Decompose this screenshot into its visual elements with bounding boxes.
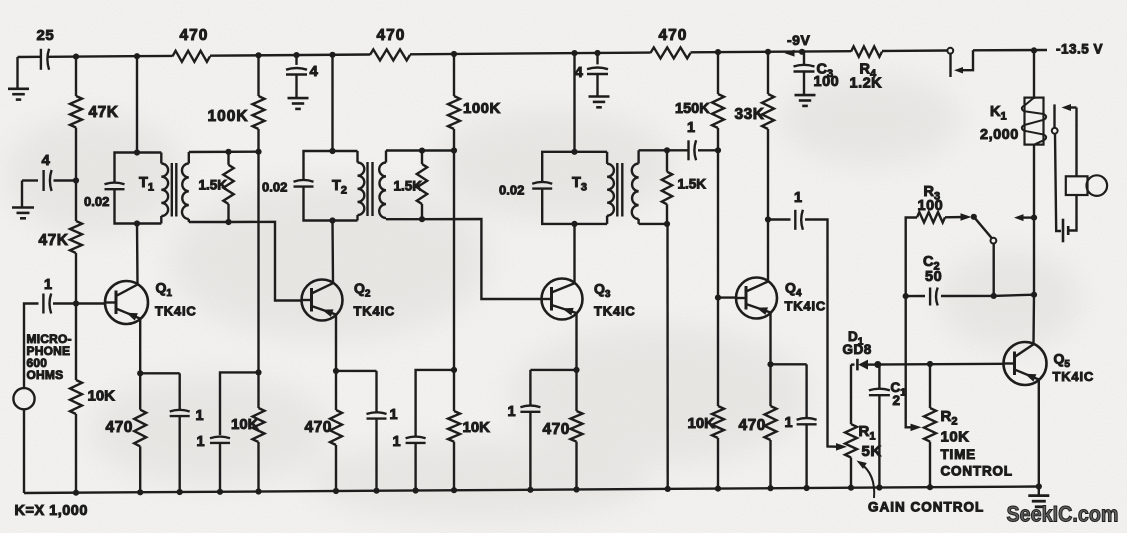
wire hook to earphone xyxy=(1075,108,1077,177)
wire Q3 emitter down xyxy=(575,314,577,370)
transformer T3 primary winding xyxy=(606,152,608,164)
wiper arrow R2 xyxy=(911,424,922,432)
wire Q2 emitter node to bypass cap xyxy=(336,370,377,372)
node T3 secondary bottom xyxy=(664,221,670,227)
svg-text:TK4IC: TK4IC xyxy=(594,304,636,319)
svg-text:TIME: TIME xyxy=(941,447,976,462)
resistor 470 (Q3 emitter) xyxy=(575,370,577,411)
wire T2 secondary bottom side xyxy=(386,218,423,220)
capacitor 0.02 (T3 tank) xyxy=(532,182,552,184)
node ground rail at Q1 470 xyxy=(137,489,143,495)
node bias filter s2 xyxy=(451,367,457,373)
wire rail to 100K xyxy=(257,55,259,96)
transformer T2 primary winding xyxy=(356,151,358,163)
switch contact (open circle) xyxy=(991,238,997,244)
svg-text:2: 2 xyxy=(893,393,901,408)
wire 33K to output node xyxy=(767,129,769,220)
wire T1 secondary top side xyxy=(189,150,259,153)
node C2 left xyxy=(903,293,909,299)
wire T3 bottom to Q3 collector xyxy=(573,224,575,283)
earphone symbol xyxy=(1066,176,1088,195)
wire T2 secondary top side xyxy=(386,149,454,151)
capacitor 1 (mic coupling) xyxy=(42,294,44,314)
wire 470 to ground rail xyxy=(139,446,141,492)
svg-text:1.5K: 1.5K xyxy=(199,178,228,193)
node ground rail at Q4 470 xyxy=(767,485,773,491)
wire cap to Q1 base xyxy=(53,302,106,304)
transformer T1 primary winding xyxy=(160,153,162,164)
transformer T2 primary loop xyxy=(304,151,358,180)
capacitor C3 100 xyxy=(803,52,805,65)
resistor 470 (Q4 emitter) xyxy=(769,364,771,406)
svg-text:10K: 10K xyxy=(688,415,716,432)
ground (bias bypass cap) xyxy=(21,181,23,208)
transistor Q4 xyxy=(736,278,777,319)
resistor 47K (lower) xyxy=(70,221,82,253)
wire gain cap to R1 wiper xyxy=(805,220,840,447)
ground (rail bypass 3) xyxy=(589,95,610,98)
wire C2 node up to R3 xyxy=(906,218,917,297)
transformer T1 core xyxy=(171,163,173,217)
svg-text:0.02: 0.02 xyxy=(499,183,524,198)
wire rail to T3 top xyxy=(573,53,575,152)
resistor R2 10K (time pot) xyxy=(929,364,931,408)
wire Q2 emitter down xyxy=(335,315,337,371)
wire top supply rail xyxy=(18,56,41,59)
node Q4 base xyxy=(715,295,721,301)
wire Q4 emitter node to bypass cap xyxy=(771,363,807,365)
wire R1 to ground rail xyxy=(850,458,852,488)
resistor 10K (Q2 bias lower) xyxy=(257,372,259,408)
wire rail to 100K (2) xyxy=(453,54,455,96)
wire Q1 emitter down xyxy=(139,319,141,373)
svg-text:1: 1 xyxy=(794,190,803,206)
node base bias Q1 xyxy=(73,300,79,306)
resistor 33K (Q4 collector load) xyxy=(762,94,774,129)
resistor 470 (rail decoupling 1) xyxy=(173,51,211,62)
capacitor 4 (rail bypass 2) xyxy=(295,55,297,65)
resistor 150K (Q4 bias) xyxy=(712,94,724,128)
wire Q1 emitter node to 470 xyxy=(139,373,141,409)
relay coil K1 xyxy=(1025,98,1044,145)
svg-text:GD8: GD8 xyxy=(843,342,872,357)
svg-text:150K: 150K xyxy=(675,101,710,117)
capacitor 1 (output coupling) xyxy=(794,210,796,230)
wire T3 secondary bottom side xyxy=(639,223,668,225)
node T2 bottom xyxy=(329,217,335,223)
node T1 secondary / bias line xyxy=(255,149,261,155)
svg-text:10K: 10K xyxy=(88,388,116,405)
resistor 10K (Q4 bias lower) xyxy=(717,298,719,406)
svg-text:4: 4 xyxy=(310,63,319,80)
wire K1 to junction xyxy=(1033,145,1035,218)
svg-text:1.5K: 1.5K xyxy=(678,177,707,192)
svg-text:100: 100 xyxy=(814,74,840,90)
svg-text:TK4IC: TK4IC xyxy=(1053,369,1095,384)
resistor R4 1.2K xyxy=(851,46,882,56)
contact wire (relay output) xyxy=(1053,104,1055,128)
svg-text:470: 470 xyxy=(659,27,688,44)
resistor 47K (upper) xyxy=(70,96,82,128)
contact circle (relay output) xyxy=(1052,128,1058,134)
node ground rail at Q1 bypass xyxy=(177,489,183,495)
resistor 470 (rail decoupling 2) xyxy=(370,49,410,60)
capacitor 1 (Q1 emitter bypass) xyxy=(178,373,180,410)
capacitor 1 (bias filter s2) xyxy=(406,437,426,439)
capacitor 4 (rail bypass 3) xyxy=(596,53,598,64)
resistor 1.5K (T3 damping) xyxy=(666,150,668,171)
capacitor 1 (Q4 emitter bypass) xyxy=(805,364,807,418)
svg-text:25: 25 xyxy=(37,27,55,44)
svg-text:1: 1 xyxy=(390,407,399,423)
svg-text:100: 100 xyxy=(918,198,944,214)
resistor R3 100 xyxy=(917,212,945,222)
svg-text:4: 4 xyxy=(575,64,584,81)
wire C2 to collector bus xyxy=(994,295,1034,296)
node T2 top xyxy=(329,148,335,154)
wire rail to 150K xyxy=(717,52,719,94)
node rail to T2 primary xyxy=(329,52,335,58)
node T1 top xyxy=(134,149,140,155)
svg-text:470: 470 xyxy=(305,419,332,436)
capacitor 1 (Q4 coupling) xyxy=(687,140,689,160)
capacitor 4 (bias bypass) xyxy=(22,179,38,181)
node Q4 emitter junction xyxy=(767,361,773,367)
wire T1 secondary to Q2 base xyxy=(229,222,302,301)
transformer T2 core xyxy=(366,162,368,216)
wire rail to T1 top xyxy=(136,56,138,152)
svg-text:50: 50 xyxy=(925,269,942,285)
node rail at bypass 3 xyxy=(594,50,600,56)
transformer T2 secondary winding xyxy=(385,151,387,163)
switch contact on rail (open circle) xyxy=(947,48,953,54)
wire T2 bottom to Q2 collector xyxy=(331,221,334,283)
svg-text:47K: 47K xyxy=(39,232,69,249)
wire C2 node to R2 wiper xyxy=(906,296,914,427)
node ground rail at bias column xyxy=(73,490,79,496)
wire Q3 emitter node to bypass cap xyxy=(530,369,576,371)
node T3 top xyxy=(571,149,577,155)
node rail / 100K xyxy=(255,52,261,58)
svg-text:4: 4 xyxy=(42,152,51,169)
wire bias line down s1 xyxy=(257,152,259,373)
wire bus to Q5 collector xyxy=(1032,295,1035,344)
arrow to contact xyxy=(1067,106,1077,108)
svg-text:10K: 10K xyxy=(463,419,491,436)
transistor Q5 xyxy=(1004,342,1047,385)
svg-text:-9V: -9V xyxy=(787,32,810,48)
wire output node to gain cap xyxy=(768,218,791,220)
wire base node to 10K xyxy=(75,304,77,381)
capacitor 0.02 (T2 tank) xyxy=(294,180,314,182)
wire Q5 emitter to ground rail xyxy=(1038,380,1040,487)
svg-text:TK4IC: TK4IC xyxy=(785,299,827,314)
node rail to T1 primary xyxy=(134,53,140,59)
node ground rail at Q2 bias 10K xyxy=(255,488,261,494)
capacitor 1 (bias filter s1) xyxy=(210,437,230,439)
node switch pivot xyxy=(971,214,977,220)
node ground rail at Q5 emitter xyxy=(1036,483,1042,489)
svg-text:1: 1 xyxy=(687,120,696,136)
node T3 secondary top / 1.5K xyxy=(664,147,670,153)
svg-text:100K: 100K xyxy=(208,108,249,125)
diode D1 GD8 xyxy=(851,363,855,365)
wire contact down to C2 xyxy=(993,244,995,296)
wire bias filter link s2 xyxy=(416,370,454,436)
svg-text:10K: 10K xyxy=(941,429,970,446)
transformer T3 core xyxy=(616,163,618,217)
svg-text:0.02: 0.02 xyxy=(84,194,109,209)
switch arm to contact xyxy=(974,217,992,238)
node ground rail at Q4 bias 10K xyxy=(715,486,721,492)
svg-text:TK4IC: TK4IC xyxy=(354,304,396,319)
supply arrow (-9V) xyxy=(785,50,795,57)
wire D1 node to Q5 base xyxy=(878,363,1004,366)
arrow fixed contact xyxy=(954,67,963,74)
ground (rail bypass 2) xyxy=(288,97,309,100)
wire bus to C2 line xyxy=(1033,218,1035,295)
node rail / 150K xyxy=(715,49,721,55)
wire 47K to base node xyxy=(75,253,77,304)
switch pivot arrow xyxy=(961,213,972,221)
node rail / 33K xyxy=(765,49,771,55)
microphone symbol xyxy=(13,388,34,409)
resistor 470 (rail decoupling 3) xyxy=(651,47,691,58)
wire fixed contact hook xyxy=(960,50,974,70)
resistor 1.5K (T1 damping) xyxy=(227,152,229,165)
wire Q4 base lead xyxy=(718,296,736,298)
node ground rail at C1 xyxy=(876,484,882,490)
wire 47K to divider node xyxy=(75,128,77,222)
resistor 470 (Q1 emitter) xyxy=(134,410,146,447)
capacitor C1 2 xyxy=(878,365,880,389)
resistor 470 (Q2 emitter) xyxy=(335,371,337,410)
node rail / 100K (2) xyxy=(451,51,457,57)
capacitor C2 50 xyxy=(906,295,925,298)
transformer T3 secondary winding xyxy=(637,150,639,163)
node top-rail / 47K divider xyxy=(73,54,79,60)
wire rail to 33K xyxy=(767,52,769,94)
wire 100K to T1 secondary xyxy=(257,129,259,152)
node rail to T3 primary xyxy=(571,50,577,56)
capacitor 0.02 (T1 tank) xyxy=(105,183,125,185)
node ground rail at Q2 470 xyxy=(333,488,339,494)
svg-text:GAIN CONTROL: GAIN CONTROL xyxy=(868,500,984,515)
wire output node to Q4 collector xyxy=(767,220,769,282)
svg-text:1.5K: 1.5K xyxy=(394,179,423,194)
resistor 1.5K (T2 damping) xyxy=(421,151,423,164)
svg-text:470: 470 xyxy=(543,421,570,438)
node rail at bypass 2 xyxy=(293,52,299,58)
svg-text:SeekIC.com: SeekIC.com xyxy=(1007,502,1119,527)
node ground rail at R2 xyxy=(927,484,933,490)
wire coupling cap to bias node xyxy=(698,149,718,151)
node Q3 emitter junction xyxy=(573,367,579,373)
resistor 100K (Q3 bias) xyxy=(448,96,460,129)
svg-text:470: 470 xyxy=(377,27,406,44)
battery cell (earphone bias) xyxy=(1062,219,1065,243)
ground (C3) xyxy=(795,94,816,97)
transistor Q2 xyxy=(302,280,343,321)
svg-text:K=X 1,000: K=X 1,000 xyxy=(15,503,88,519)
node T2 secondary / bias line xyxy=(451,147,457,153)
node R2 top xyxy=(927,361,933,367)
node T2 secondary top / 1.5K xyxy=(419,148,425,154)
wire bottom ground rail xyxy=(24,487,1039,494)
svg-text:1: 1 xyxy=(785,415,794,431)
transformer T1 primary loop xyxy=(115,153,162,183)
capacitor 1 (Q2 emitter bypass) xyxy=(375,371,377,412)
wire bias filter link s1 xyxy=(220,372,259,435)
node Q4 coupling / bias xyxy=(715,147,721,153)
wire mic to coupling cap xyxy=(24,304,39,389)
svg-text:1: 1 xyxy=(508,404,517,420)
node ground rail at s1 filter cap xyxy=(217,489,223,495)
node ground rail at Q3 bypass xyxy=(527,487,533,493)
wire T2 secondary to Q3 base xyxy=(423,219,542,299)
wiper arrow R1 xyxy=(836,443,847,451)
node bus output junction xyxy=(1031,215,1037,221)
svg-text:1: 1 xyxy=(197,434,206,450)
svg-text:10K: 10K xyxy=(231,416,259,433)
resistor 10K (Q3 bias lower) xyxy=(453,370,455,411)
svg-text:1: 1 xyxy=(196,408,205,424)
wire Q4 emitter down xyxy=(769,313,771,364)
node bus / C2 line / Q5 collector xyxy=(1031,292,1037,298)
node -13.5V bus xyxy=(1031,47,1037,53)
ground (main, at Q5 emitter) xyxy=(1038,487,1040,495)
node ground rail at Q2 bypass xyxy=(373,488,379,494)
wire mic to ground rail xyxy=(23,409,25,493)
wire bias line to Q4 base xyxy=(717,150,719,297)
svg-text:-13.5 V: -13.5 V xyxy=(1056,42,1103,57)
wire contact to plug xyxy=(1055,134,1061,231)
wire T1 bottom to Q1 collector xyxy=(136,224,139,285)
node divider / bypass cap 4 xyxy=(73,177,79,183)
wire bus rail to K1 xyxy=(1033,50,1035,99)
resistor R1 5K (gain pot) xyxy=(845,424,857,457)
wire 100K to T2 secondary xyxy=(453,129,455,151)
node T1 secondary bottom / 1.5K xyxy=(225,219,231,225)
resistor 100K (Q2 bias) xyxy=(253,96,265,129)
wire R3 to switch pivot xyxy=(945,216,965,219)
wire top-right rail segment xyxy=(973,49,1047,52)
node T3 bottom xyxy=(571,221,577,227)
wire earphone to cell xyxy=(1068,195,1076,231)
wire T1 secondary bottom side xyxy=(189,221,229,223)
node T1 bottom xyxy=(134,220,140,226)
svg-text:470: 470 xyxy=(180,27,209,44)
svg-text:2,000: 2,000 xyxy=(980,127,1019,143)
svg-text:0.02: 0.02 xyxy=(262,180,287,195)
node Q2 emitter junction xyxy=(333,368,339,374)
node Q1 emitter junction xyxy=(137,370,143,376)
node T1 secondary top / 1.5K xyxy=(225,149,231,155)
wire T3 secondary to ground rail xyxy=(666,224,669,489)
wire emitter node to bypass cap xyxy=(140,372,180,374)
svg-text:TK4IC: TK4IC xyxy=(155,304,197,319)
node ground rail at s2 filter cap xyxy=(413,487,419,493)
svg-text:470: 470 xyxy=(106,419,133,436)
svg-text:470: 470 xyxy=(739,417,766,434)
arrow into bus junction xyxy=(1019,216,1034,218)
svg-text:47K: 47K xyxy=(89,104,119,121)
node D1 / C1 / Q5 base line xyxy=(874,361,881,368)
transformer T3 primary loop xyxy=(542,152,607,182)
capacitor 25 (input coupling, on rail) xyxy=(40,49,42,70)
wire 10K to ground rail xyxy=(75,414,77,493)
node ground rail at T3 return xyxy=(665,486,671,492)
node T2 secondary bottom / 1.5K xyxy=(419,216,425,222)
svg-text:100K: 100K xyxy=(463,100,501,117)
node C2 right xyxy=(991,293,997,299)
capacitor 1 (Q3 emitter bypass) xyxy=(529,370,531,406)
node bias filter s1 xyxy=(255,369,261,375)
node ground rail at R1 xyxy=(848,485,854,491)
transformer T1 secondary winding xyxy=(188,152,190,164)
wire 150K to coupling node xyxy=(717,128,719,150)
node ground rail at Q4 bypass xyxy=(804,485,810,491)
ground (top-left, below input cap) xyxy=(16,57,18,89)
transistor Q3 xyxy=(542,279,583,320)
svg-text:1.2K: 1.2K xyxy=(850,76,883,92)
svg-text:OHMS: OHMS xyxy=(27,368,64,382)
svg-text:1: 1 xyxy=(393,434,402,450)
switch moving arm (rail) xyxy=(949,54,951,77)
transistor Q1 xyxy=(105,281,148,324)
node -9V supply xyxy=(799,49,805,55)
svg-text:33K: 33K xyxy=(735,106,765,123)
resistor 10K (mic bias) xyxy=(70,380,82,414)
annotation arrow gain control xyxy=(860,463,874,498)
svg-text:CONTROL: CONTROL xyxy=(941,464,1013,479)
node Q4 collector / output xyxy=(765,216,771,222)
node ground rail at Q3 470 xyxy=(573,486,579,492)
wire T3 secondary top side xyxy=(639,149,688,151)
node ground rail at Q3 bias 10K xyxy=(451,487,457,493)
wire bias line down s2 xyxy=(453,151,455,370)
wire D1 to R1 xyxy=(850,365,852,425)
wire rail to 47K xyxy=(75,57,77,96)
svg-text:1: 1 xyxy=(44,277,53,293)
wire rail to T2 top xyxy=(331,55,333,151)
